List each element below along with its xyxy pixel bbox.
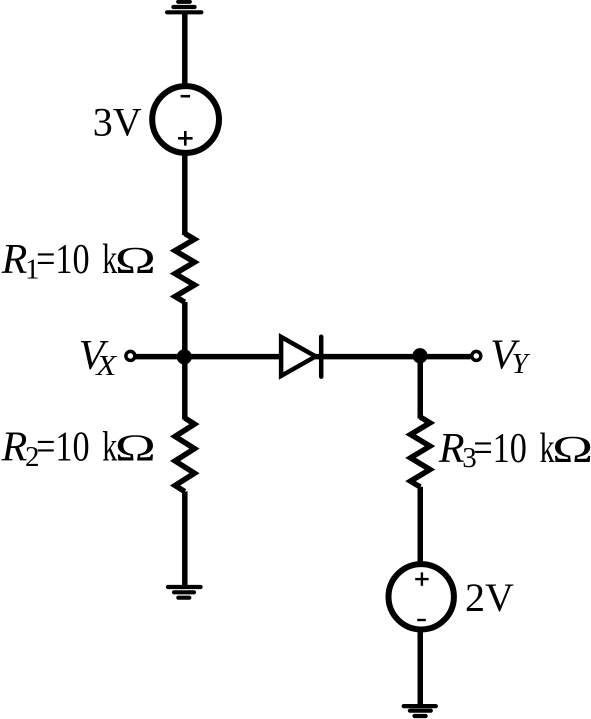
svg-text:=10: =10 bbox=[36, 424, 90, 470]
node VX junction dot bbox=[177, 349, 192, 364]
resistor R2 bbox=[175, 418, 194, 492]
ground GND1 (top, inverted) bbox=[167, 2, 201, 13]
svg-text:R: R bbox=[1, 424, 28, 470]
wire GND1 to V1 bbox=[182, 12, 188, 88]
ground GND3 bbox=[404, 706, 436, 716]
V1 plus sign bbox=[178, 131, 193, 146]
label R3=10 kOhm bbox=[438, 426, 591, 474]
terminal VX open circle bbox=[126, 351, 135, 360]
svg-text:=10: =10 bbox=[36, 237, 90, 283]
V2 plus sign bbox=[415, 572, 428, 585]
ground GND2 bbox=[168, 587, 201, 598]
svg-text:Ω: Ω bbox=[552, 429, 591, 471]
wire R2 to GND2 bbox=[182, 491, 188, 586]
wire V1 to R1 bbox=[182, 151, 188, 235]
svg-text:Ω: Ω bbox=[115, 427, 156, 469]
V1 minus sign bbox=[181, 95, 191, 98]
svg-text:2V: 2V bbox=[465, 575, 514, 620]
diode D1 triangle bbox=[281, 337, 316, 376]
wire node VX horizontal to diode and node VY bbox=[135, 354, 471, 360]
label R2=10 kOhm bbox=[1, 424, 156, 472]
label R1=10 kOhm bbox=[1, 237, 156, 285]
wire R1 to node VX bbox=[182, 302, 188, 357]
wire V2 to GND3 bbox=[418, 627, 424, 705]
node VY junction dot bbox=[412, 348, 427, 363]
terminal VY open circle bbox=[472, 351, 481, 360]
svg-text:Y: Y bbox=[512, 348, 531, 380]
svg-text:R: R bbox=[438, 426, 465, 472]
svg-text:=10: =10 bbox=[473, 426, 527, 472]
svg-text:R: R bbox=[1, 237, 28, 283]
svg-text:Ω: Ω bbox=[115, 240, 156, 282]
voltage source V1 3V bbox=[152, 86, 219, 153]
voltage source V2 2V bbox=[389, 564, 454, 629]
resistor R1 bbox=[175, 234, 194, 303]
resistor R3 bbox=[411, 417, 430, 487]
diode D1 cathode bar bbox=[319, 337, 324, 377]
wire R3 to V2 bbox=[418, 487, 424, 566]
svg-text:X: X bbox=[95, 350, 118, 382]
wire node VY down to R3 bbox=[418, 357, 424, 419]
svg-text:3V: 3V bbox=[93, 99, 142, 144]
wire node VX down to R2 bbox=[182, 357, 188, 420]
V2 minus sign bbox=[417, 619, 426, 621]
